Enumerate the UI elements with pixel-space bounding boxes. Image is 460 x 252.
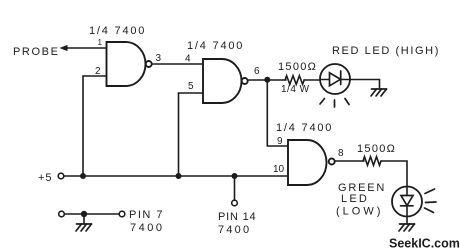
svg-text:LED: LED [341,193,369,205]
svg-text:9: 9 [277,136,283,147]
svg-text:PROBE: PROBE [13,46,60,58]
svg-text:1/4 7400: 1/4 7400 [89,25,146,37]
svg-text:SeekIC.com: SeekIC.com [389,237,460,251]
junction dot rail / pin 14 branch [232,173,238,179]
ground for pin 7 [76,224,92,231]
svg-text:4: 4 [185,54,191,65]
pin 7 left terminal [59,211,65,217]
wire U1c output to R2 [335,160,364,162]
nand gate U1a [107,42,152,86]
wire pin 7 [64,213,119,215]
nand gate U1c [288,140,335,185]
wire dot to ground pin7 [83,214,85,224]
svg-text:1500Ω: 1500Ω [278,61,317,73]
LED D1 light rays [320,99,349,108]
svg-text:3: 3 [156,53,162,64]
svg-text:6: 6 [254,66,260,77]
svg-text:1/4 7400: 1/4 7400 [276,122,333,134]
wire U1a pin 2 down to +5 rail [83,76,107,176]
svg-text:+5: +5 [38,172,53,184]
LED D2 light rays [425,189,437,213]
junction dot rail / pin 5 branch [176,173,182,179]
svg-text:PIN 7: PIN 7 [129,209,164,221]
pin 14 terminal [232,200,238,206]
svg-text:10: 10 [273,164,285,175]
wire R1 to LED D1 [304,79,321,81]
svg-text:1/4 7400: 1/4 7400 [187,40,244,52]
pin 7 right terminal [119,211,125,217]
svg-text:7400: 7400 [218,224,251,236]
node A junction dot [264,77,270,83]
wire +5 rail to U1c pin 10 [64,175,288,177]
svg-text:1/4 W: 1/4 W [281,84,310,95]
ground for D2 [399,224,415,231]
svg-text:8: 8 [338,148,344,159]
wire U1b pin 5 down to +5 rail [179,93,204,176]
+5 terminal [58,173,64,179]
svg-text:5: 5 [188,81,194,92]
wire LED D1 to ground [350,80,380,90]
wire U1a output to U1b pin 4 [152,63,203,65]
wire U1b output to node A [248,79,286,81]
wire node A down to U1c pin 9 [267,80,288,146]
LED D1 red [320,64,350,94]
svg-text:(LOW): (LOW) [336,206,383,218]
resistor R2 [363,157,381,166]
resistor R1 [285,76,304,85]
wire probe to U1a pin 1 [66,47,107,49]
nand gate U1b [203,59,248,103]
wire rail down to pin 14 terminal [234,176,236,200]
ground for D1 [371,89,387,96]
svg-text:7400: 7400 [130,222,164,234]
LED D2 green [392,187,422,217]
svg-text:1500Ω: 1500Ω [357,143,396,155]
junction dot rail / pin 2 branch [80,173,86,179]
junction dot pin 7 ground [81,211,87,217]
wire R2 to LED D2 [381,161,407,187]
probe arrowhead [60,45,68,51]
svg-text:1: 1 [98,38,103,47]
svg-text:RED LED (HIGH): RED LED (HIGH) [332,45,440,57]
wire LED D2 to ground [406,217,408,225]
svg-text:PIN 14: PIN 14 [218,211,256,223]
